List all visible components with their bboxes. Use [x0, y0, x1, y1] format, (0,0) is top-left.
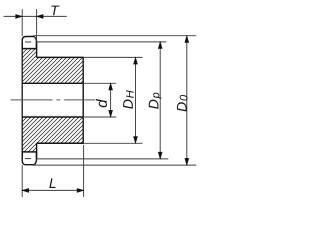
- dimension T extension line right: [36, 9, 38, 41]
- leader line DH bottom: [83, 142, 142, 144]
- dimension Dp line: [159, 42, 161, 159]
- tooth root line bottom: [22, 151, 37, 153]
- dimension DH line: [135, 58, 137, 144]
- dimension D0 arrow down: [185, 158, 189, 165]
- dimension T arrow right: [37, 15, 44, 19]
- dimension L line: [22, 189, 83, 191]
- dimension D0 line: [186, 36, 188, 165]
- tooth profile top: [22, 37, 36, 49]
- dimension Dp arrow up: [158, 42, 162, 49]
- plate right face upper: [36, 42, 38, 57]
- dimension L arrow right: [77, 189, 84, 193]
- label T: [51, 6, 59, 16]
- label D0: [177, 95, 188, 112]
- label DH: [123, 90, 133, 108]
- tooth pitch dash bottom: [25, 158, 31, 160]
- dimension L extension left: [21, 165, 23, 197]
- leader line D0 bottom: [33, 164, 196, 166]
- dimension T line: [4, 15, 67, 17]
- hub right face: [82, 57, 84, 144]
- leader line Dp bottom: [36, 158, 168, 160]
- dimension L arrow left: [22, 189, 29, 193]
- dimension DH arrow down: [134, 137, 138, 144]
- dimension d arrow down: [109, 110, 113, 117]
- dimension T arrow left: [16, 15, 23, 19]
- bore top edge: [22, 82, 83, 84]
- hatched section lower (plate + hub): [22, 117, 83, 152]
- dimension d arrow up: [109, 83, 113, 90]
- tooth profile bottom: [22, 152, 36, 165]
- plate right face lower: [36, 143, 38, 159]
- leader line Dp top: [36, 41, 166, 43]
- centerline: [11, 99, 96, 101]
- dimension d line: [110, 83, 112, 117]
- label L: [49, 178, 55, 188]
- dimension L extension right: [83, 145, 85, 197]
- dimension DH arrow up: [134, 58, 138, 65]
- tooth pitch dash top: [25, 41, 31, 43]
- bore bottom edge: [22, 116, 83, 118]
- label Dp: [149, 93, 162, 109]
- label d: [96, 99, 107, 107]
- dimension d extension bottom: [83, 116, 116, 118]
- hub top edge: [37, 56, 84, 58]
- hatched section upper (plate + hub): [22, 49, 83, 84]
- hub bottom edge: [37, 142, 84, 144]
- tooth root line top: [22, 48, 37, 50]
- leader line D0 top: [33, 35, 196, 37]
- plate left face: [21, 42, 23, 159]
- dimension T extension line left: [21, 9, 23, 36]
- leader line DH top: [83, 56, 142, 58]
- dimension d extension top: [83, 82, 116, 84]
- dimension Dp arrow down: [158, 152, 162, 159]
- dimension D0 arrow up: [185, 36, 189, 43]
